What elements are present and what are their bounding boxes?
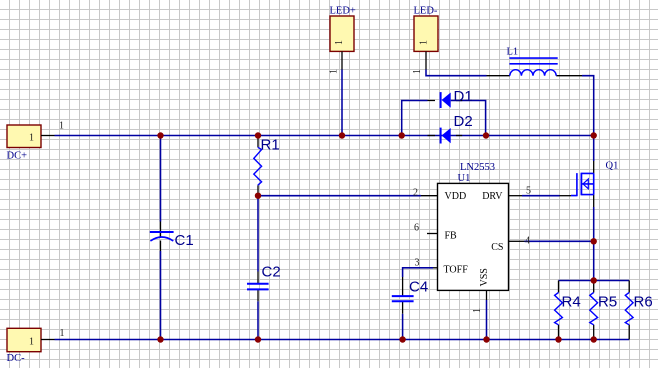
wire LED+ drop to rail <box>341 70 343 136</box>
junction resistor rail <box>591 277 597 283</box>
svg-text:L1: L1 <box>507 47 519 58</box>
svg-text:VSS: VSS <box>479 268 490 286</box>
junction CS column <box>591 238 597 244</box>
junction C2 bottom <box>255 336 261 342</box>
junction C4 bottom <box>399 336 405 342</box>
svg-text:C4: C4 <box>409 279 428 296</box>
svg-text:1: 1 <box>419 40 430 45</box>
junction C1 top <box>157 132 163 138</box>
pin 5 DRV <box>482 186 531 203</box>
op-amp U1 LN2553 IC body <box>438 162 509 290</box>
wire Q1 source down <box>593 207 595 281</box>
svg-text:C2: C2 <box>262 264 281 281</box>
wire resistor top rail <box>559 280 630 282</box>
svg-text:1: 1 <box>472 308 483 313</box>
junction R1 top <box>255 132 261 138</box>
pin 4 CS <box>491 236 530 254</box>
svg-text:1: 1 <box>60 328 65 339</box>
svg-text:R4: R4 <box>562 294 581 311</box>
svg-text:1: 1 <box>334 40 345 45</box>
svg-text:1: 1 <box>59 121 64 132</box>
capacitor C1 <box>150 222 194 252</box>
connector LED- <box>412 6 438 75</box>
svg-text:VDD: VDD <box>445 191 467 202</box>
svg-text:R1: R1 <box>261 137 280 154</box>
wire R1 to U1 pin2 <box>258 195 421 197</box>
svg-text:C1: C1 <box>175 232 194 249</box>
svg-text:2: 2 <box>413 188 418 199</box>
svg-text:DC+: DC+ <box>7 151 28 162</box>
svg-text:R5: R5 <box>598 294 617 311</box>
svg-text:1: 1 <box>29 133 34 144</box>
junction R4 bottom <box>555 336 561 342</box>
diode D1 <box>428 88 473 108</box>
svg-text:Q1: Q1 <box>606 161 619 172</box>
junction R5 bottom <box>591 336 597 342</box>
pin 2 VDD <box>413 188 466 203</box>
connector DC+ <box>7 121 65 162</box>
svg-text:LED+: LED+ <box>330 6 356 17</box>
svg-text:LN2553: LN2553 <box>460 162 495 173</box>
svg-text:D2: D2 <box>454 113 473 130</box>
wire C2 branch vertical <box>257 196 259 340</box>
pin 1 VSS <box>472 268 490 313</box>
svg-text:3: 3 <box>415 258 420 269</box>
svg-text:5: 5 <box>526 186 531 197</box>
resistor R4 <box>555 281 581 340</box>
wire VSS to bottom rail <box>486 300 488 340</box>
junction D loop right <box>483 132 489 138</box>
wire bottom main DC- rail <box>55 339 630 341</box>
diode D2 <box>428 113 473 144</box>
junction C1 bottom <box>157 336 163 342</box>
junction D loop left <box>399 132 405 138</box>
svg-text:1: 1 <box>329 69 340 74</box>
svg-text:D1: D1 <box>454 88 473 105</box>
svg-text:4: 4 <box>525 236 530 247</box>
resistor R1 <box>254 136 280 196</box>
svg-text:CS: CS <box>491 242 503 253</box>
capacitor C4 <box>392 277 428 314</box>
junction R1 bottom node <box>255 193 261 199</box>
wire U1 pin4 CS to Q1 source column <box>525 240 594 242</box>
pin 3 TOFF <box>415 258 469 276</box>
svg-text:TOFF: TOFF <box>444 265 469 276</box>
wire D1 parallel loop <box>402 101 486 136</box>
svg-text:DRV: DRV <box>482 191 503 202</box>
wire L1 to Q1 drain <box>582 76 594 161</box>
connector LED+ <box>329 6 356 75</box>
wire U1 pin3 to C4 <box>403 268 433 277</box>
junction LED+ rail <box>339 132 345 138</box>
wire C4 to bottom rail <box>402 314 404 340</box>
wire top main DC+ rail <box>55 135 594 137</box>
svg-text:DC-: DC- <box>7 353 26 364</box>
inductor L1 <box>487 47 583 76</box>
svg-text:LED-: LED- <box>414 6 438 17</box>
transistor Q1 <box>560 161 619 208</box>
svg-text:U1: U1 <box>458 173 471 184</box>
junction VSS bottom <box>483 336 489 342</box>
svg-text:FB: FB <box>445 231 458 242</box>
svg-text:1: 1 <box>412 69 423 74</box>
capacitor C2 <box>247 264 281 302</box>
wire U1 pin5 to Q1 gate <box>522 195 560 197</box>
resistor R6 <box>625 281 652 340</box>
pin 6 FB <box>414 223 457 242</box>
resistor R5 <box>590 281 617 340</box>
svg-text:6: 6 <box>414 223 419 234</box>
wire C1 branch vertical <box>160 136 162 340</box>
junction rail Q1 column <box>591 132 597 138</box>
connector DC- <box>7 328 65 364</box>
wire LED- to L1 <box>426 70 487 76</box>
svg-text:1: 1 <box>29 337 34 348</box>
svg-text:R6: R6 <box>634 294 653 311</box>
